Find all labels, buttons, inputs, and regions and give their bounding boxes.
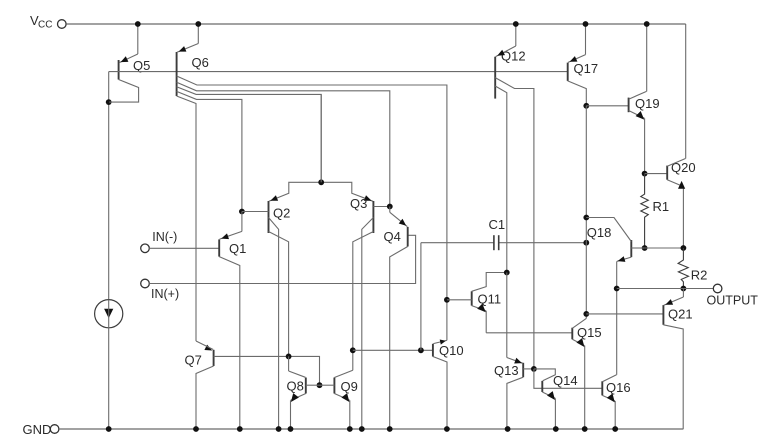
wire IN(-) to Q1 base [149,247,219,249]
node R2 top junction [681,245,687,251]
wire Q5 collector [109,80,138,103]
node Q18 base junction [642,245,648,251]
node GND Q2A [276,426,282,432]
node Vcc-Q6 [195,21,201,27]
svg-text:Q7: Q7 [185,353,202,368]
wire Q5 emitter [119,24,138,63]
transistor Q9 [334,378,357,395]
svg-text:CC: CC [38,20,52,31]
node Q8-Q9 base junction [317,382,323,388]
terminal IN(-) [141,230,178,253]
svg-text:Q20: Q20 [671,160,696,175]
wire Q13 base [523,368,534,370]
wire Q14 collector link [534,369,555,381]
transistor Q8 [287,378,306,394]
transistor Q2 [269,201,291,233]
arrow Q15 emitter [576,338,584,347]
wire Q17 collector [568,81,587,106]
Vcc rail wire [66,23,685,25]
arrow Q10 emitter [440,340,446,345]
node Q17 collector junction [583,103,589,109]
svg-text:R2: R2 [691,268,708,283]
node Q13 base junction [531,366,537,372]
svg-text:Q19: Q19 [635,96,660,111]
wire Q18 emitter [617,257,632,288]
wire Q12 collector B [495,86,507,273]
wire Q12 emitter [496,24,516,57]
node GND Q4 [387,426,393,432]
wire Q21 collector [663,325,683,429]
wire Q15 collector [572,314,586,328]
arrow Q5 emitter [121,56,129,62]
wire Q14-Q16 base line [534,369,602,388]
wire Q2 base [242,211,269,213]
node Q15 collector junction [583,311,589,317]
node C1 right junction [583,240,589,246]
wire Q6 emitter [177,24,198,52]
node GND Q14 [553,426,559,432]
wire Q2-Q3 emitter tail [269,182,373,201]
wire Q15 emitter [572,339,584,429]
wire Q16 collector [602,289,616,382]
current source I1 [95,300,123,328]
resistor R1 [641,174,669,248]
wire Q6 collector 2 [177,82,390,206]
wire Q17col column [585,106,587,314]
node output junction [681,286,687,292]
Vcc terminal [30,13,66,31]
node GND Q10 [444,426,450,432]
wire C1 left lead down [420,243,422,351]
wire output line [617,288,714,290]
transistor Q15 [572,325,601,340]
transistor Q12 [495,49,525,99]
svg-text:Q3: Q3 [350,196,367,211]
transistor Q19 [629,96,660,112]
svg-text:Q10: Q10 [439,343,464,358]
wire current source to GND [108,300,110,429]
wire Q7 emitter diag [196,341,213,350]
arrow Q16 emitter [607,394,615,403]
node Q20 base junction [642,171,648,177]
wire Q11 emitter [472,306,487,333]
node GND Q8 [288,426,294,432]
node Q5 base-collector junction [106,99,112,105]
wire Q7 base line [214,356,320,385]
node Q3 base junction [387,204,393,210]
transistor Q13 [494,363,523,378]
wire Q19 base [586,105,628,107]
wire Q20 base [645,173,668,175]
terminal OUTPUT [707,284,759,307]
node Q18 collector junction [583,215,589,221]
node Q9 collector - Q3 junction [350,347,356,353]
svg-text:Q13: Q13 [494,363,519,378]
svg-text:Q15: Q15 [577,325,602,340]
node GND Q9 [347,426,353,432]
wire Q9 emitter [334,394,349,430]
wire Q5 base-collector column [108,72,110,300]
wire Q9-Q10 base line [353,349,433,351]
node GND Q15 [582,426,588,432]
wire Q10 collector [433,357,447,430]
arrow Q1 emitter [221,233,229,239]
wire Q21 base [586,313,663,315]
node GND Q3B [359,426,365,432]
node C1 left column junction [418,347,424,353]
node Q11 base junction [444,297,450,303]
node GND Q16 [612,426,618,432]
wire Q2 collector A [269,218,279,430]
transistor Q16 [602,380,630,395]
arrow Q7 emitter [204,345,212,351]
arrow Q12 emitter [497,50,505,56]
wire Q14 emitter [542,392,555,429]
wire Q13 collector [507,377,523,429]
wire Q11 collector [472,273,507,292]
wire Q13 emitter diag [507,358,523,364]
node Vcc-Q17 [583,21,589,27]
wire Q19 emitter [629,111,645,174]
node Vcc-Q12 [513,21,519,27]
wire Q4 emitter [390,207,408,227]
wire Q19 collector [629,24,647,99]
wire Q10 emitter diag [433,340,447,343]
wire Q6 collector 5 [177,96,196,341]
svg-text:Q21: Q21 [668,307,693,322]
node GND Q7 [193,426,199,432]
wire Q3 collector A [353,232,374,351]
svg-text:Q9: Q9 [341,379,358,394]
svg-text:Q6: Q6 [192,55,209,70]
node GND Q13 [505,426,511,432]
transistor Q17 [568,61,598,81]
wire Q12 collector A [495,78,534,369]
transistor Q4 [384,227,408,247]
arrow Q6 emitter [179,46,187,52]
wire Q18 base [631,247,644,249]
wire Q9 collector diag [334,350,352,377]
transistor Q14 [542,373,577,392]
wire Q3 collector B [362,218,374,430]
transistor Q10 [433,343,464,358]
wire common base line Q5-Q6-Q12-Q17 [109,71,568,73]
wire Q20 emitter [667,180,683,248]
wire Q18 collector [586,218,631,242]
wire Q4 collector [390,247,408,430]
arrow Q19 emitter [636,111,645,120]
arrow Q21 emitter [665,299,673,305]
svg-text:Q16: Q16 [606,380,631,395]
svg-text:Q14: Q14 [553,373,578,388]
node Q18 emitter - Q16 collector junction [614,286,620,292]
wire Q6 collector 1 [177,76,447,340]
wire Q1 collector [219,257,240,429]
arrow Q13 emitter [514,358,522,364]
transistor Q18 [587,225,632,257]
wire tail to Q6 [320,94,322,182]
svg-text:Q18: Q18 [587,225,612,240]
arrow Q20 emitter [678,181,685,189]
transistor Q7 [185,350,214,368]
wire Q1 emitter [220,212,242,240]
transistor Q1 [219,239,246,256]
svg-text:GND: GND [23,422,52,437]
svg-text:Q12: Q12 [501,49,526,64]
svg-text:R1: R1 [653,199,670,214]
svg-text:IN(+): IN(+) [151,287,179,301]
wire Q21 emitter [664,289,684,306]
svg-text:Q2: Q2 [273,206,290,221]
wire Q16 emitter [602,395,615,429]
resistor R2 [678,248,707,289]
svg-text:C1: C1 [489,217,506,232]
arrow Q17 emitter [570,56,578,62]
wire Q17 emitter [568,24,585,62]
wire Q2 collector B [269,232,289,357]
svg-text:Q8: Q8 [287,379,304,394]
wire Q6 collector 4 [177,91,242,211]
wire Q11 base [447,299,472,301]
transistor Q20 [667,160,695,180]
arrow Q11 emitter [477,304,486,313]
wire R1 node to R2 node [645,247,684,249]
wire Q3 base [373,206,389,208]
GND rail wire [59,428,683,430]
arrow Q8 emitter [291,393,299,402]
capacitor C1 [421,217,586,250]
svg-text:Q4: Q4 [384,229,401,244]
GND terminal [23,422,59,437]
svg-text:OUTPUT: OUTPUT [707,294,759,308]
node tail junction [318,179,324,185]
transistor Q3 [350,196,373,233]
wire Q8 emitter [291,394,306,430]
wire Q11 emitter to Q15 base [486,332,572,334]
wire Q9 base [320,384,335,386]
wire Q7 collector [196,366,214,429]
arrow Q2 emitter [270,195,278,201]
node Q12-Q11 collector junction [504,270,510,276]
arrow Q9 emitter [341,393,349,402]
node Vcc-Q19 [644,21,650,27]
node GND left [106,426,112,432]
arrow Q4 emitter [399,219,407,226]
wire Q20 collector [667,24,686,166]
wire Q6 collector 3 [177,87,322,183]
svg-text:Q1: Q1 [229,241,246,256]
arrow Q14 emitter [547,391,555,400]
svg-text:Q11: Q11 [478,292,502,307]
node Q7 base - Q8 collector [286,354,292,360]
transistor Q21 [663,305,692,325]
arrow Q3 emitter [364,195,372,201]
node Vcc-Q5 [135,21,141,27]
wire Q8 collector diag [289,356,306,377]
svg-text:Q5: Q5 [133,58,150,73]
transistor Q5 [119,58,151,80]
svg-text:IN(-): IN(-) [152,230,177,244]
wire IN(+) to Q4 base [149,235,415,283]
terminal IN(+) [141,279,179,301]
svg-text:Q17: Q17 [574,61,599,76]
node Q1 emitter junction [239,209,245,215]
node GND Q1 [237,426,243,432]
arrow Q18 emitter [618,256,626,262]
transistor Q6 [177,52,209,96]
wire Q8 base [306,384,320,386]
wire Q12colB to Q13 emitter [506,273,508,358]
transistor Q11 [472,291,501,306]
